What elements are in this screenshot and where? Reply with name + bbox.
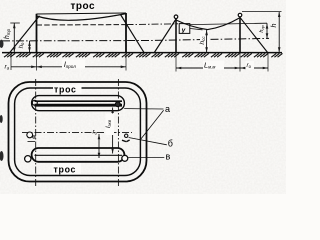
svg-text:h: h	[269, 24, 278, 28]
svg-text:б: б	[168, 139, 173, 149]
svg-text:hсс: hсс	[199, 36, 206, 45]
svg-text:rо: rо	[93, 129, 98, 136]
svg-text:lэкв: lэкв	[105, 119, 112, 128]
svg-text:трос: трос	[71, 1, 96, 12]
svg-text:у: у	[181, 27, 186, 34]
svg-text:трос: трос	[54, 84, 77, 94]
svg-text:hо: hо	[18, 42, 25, 48]
svg-text:в: в	[166, 152, 171, 162]
svg-text:а: а	[165, 104, 170, 114]
svg-text:трос: трос	[54, 164, 77, 174]
svg-text:rо: rо	[247, 62, 252, 69]
svg-text:rа: rа	[5, 64, 10, 71]
